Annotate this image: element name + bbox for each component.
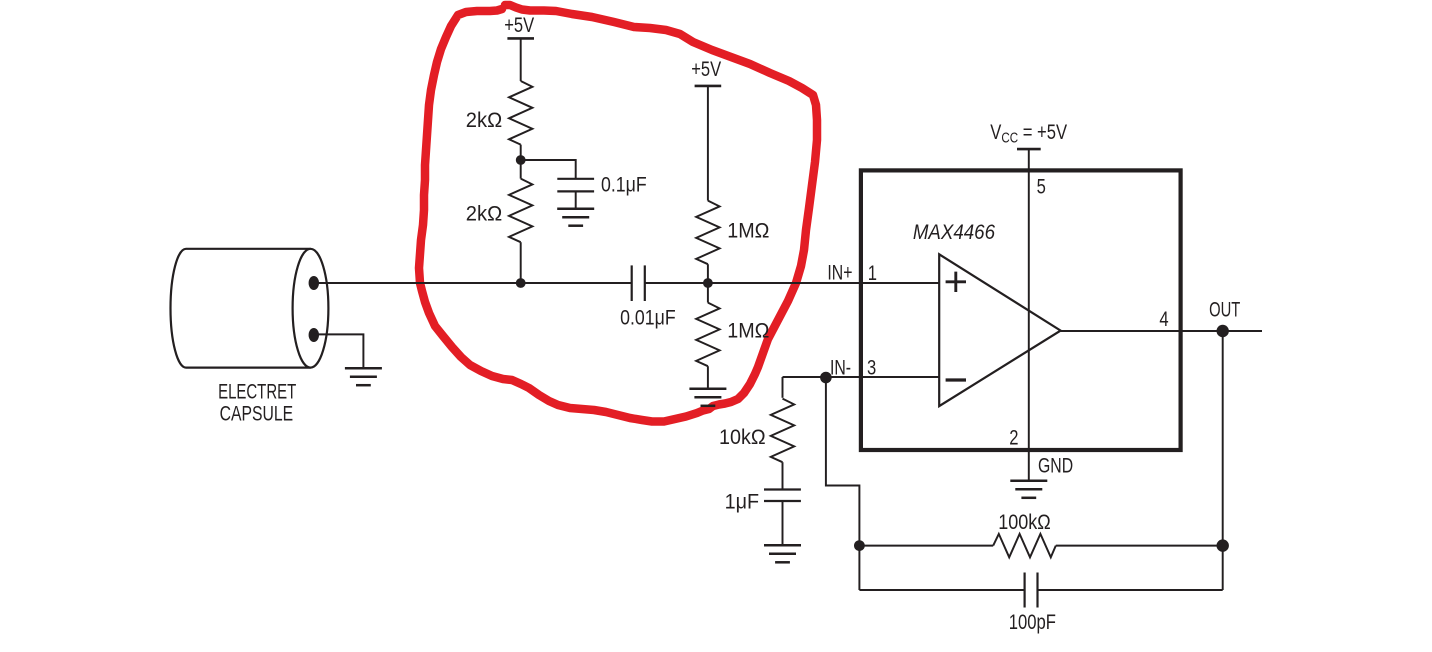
IN- label <box>830 355 851 379</box>
svg-text:GND: GND <box>1038 453 1073 477</box>
node on main wire <box>516 278 526 288</box>
pin 5 / pin 2 vertical rail <box>1028 149 1030 481</box>
label 2kOhm <box>466 202 502 225</box>
svg-text:100kΩ: 100kΩ <box>998 511 1050 535</box>
resistor 100k <box>993 534 1056 557</box>
pin number 2 <box>1009 426 1018 449</box>
label 10kOhm <box>719 427 766 450</box>
node feedback left <box>854 540 865 551</box>
node OUT <box>1217 325 1229 337</box>
plus input mark <box>946 272 966 292</box>
svg-text:OUT: OUT <box>1209 298 1240 321</box>
op-amp triangle <box>939 254 1060 406</box>
IN- wire <box>783 376 940 378</box>
svg-text:1MΩ: 1MΩ <box>727 220 769 243</box>
label 1MOhm <box>727 320 769 343</box>
label 0.01uF <box>620 307 676 330</box>
svg-text:100pF: 100pF <box>1009 610 1056 633</box>
node feedback right <box>1217 539 1229 551</box>
label 100pF <box>1009 610 1056 633</box>
GND label <box>1038 453 1073 477</box>
resistor 10k <box>771 399 794 463</box>
svg-text:VCC = +5V: VCC = +5V <box>990 120 1067 146</box>
ground 1uF <box>764 544 801 547</box>
pin number 1 <box>868 262 877 285</box>
IN+ label <box>827 260 852 284</box>
label 1uF <box>725 491 759 514</box>
svg-text:1μF: 1μF <box>725 491 759 514</box>
wire +5V to 1M upper <box>707 86 709 201</box>
label CAPSULE <box>220 401 293 425</box>
svg-text:0.01μF: 0.01μF <box>620 307 676 330</box>
svg-text:2kΩ: 2kΩ <box>466 202 502 225</box>
pin number 5 <box>1037 176 1046 199</box>
wire cap run left <box>859 589 1024 591</box>
wire +5V to R1 <box>520 38 522 81</box>
svg-text:1: 1 <box>868 262 877 285</box>
label MAX4466 <box>913 221 995 244</box>
resistor 1M lower <box>696 303 719 367</box>
svg-text:IN+: IN+ <box>827 260 852 284</box>
OUT label <box>1209 298 1240 321</box>
capacitor 1uF <box>764 488 801 490</box>
minus input mark <box>946 378 966 381</box>
wire cap run right <box>1038 589 1223 591</box>
svg-text:CAPSULE: CAPSULE <box>220 401 293 425</box>
resistor 1M upper <box>696 201 719 265</box>
wire 1uF to ground <box>782 501 784 545</box>
svg-text:1MΩ: 1MΩ <box>727 320 769 343</box>
label ELECTRET CAPSULE <box>218 380 296 403</box>
wire R1 to node <box>520 145 522 179</box>
label 0.1uF <box>601 174 647 197</box>
capacitor 100pF <box>1023 573 1025 608</box>
Vcc supply bar <box>1017 148 1041 151</box>
capsule terminal bottom <box>309 328 319 342</box>
label 2kOhm <box>466 109 502 132</box>
svg-text:10kΩ: 10kΩ <box>719 427 766 450</box>
svg-text:+5V: +5V <box>691 57 721 80</box>
wire node to 0.1uF <box>521 160 576 179</box>
feedback resistor wire left <box>859 545 993 547</box>
node bias divider <box>516 155 526 165</box>
svg-text:0.1μF: 0.1μF <box>601 174 647 197</box>
node IN- <box>820 372 832 384</box>
capsule terminal top <box>309 276 319 290</box>
svg-text:2kΩ: 2kΩ <box>466 109 502 132</box>
svg-text:5: 5 <box>1037 176 1046 199</box>
svg-text:2: 2 <box>1009 426 1018 449</box>
wire 1M to main node <box>707 264 709 302</box>
wire OUT down to feedback <box>1222 331 1224 590</box>
svg-text:+5V: +5V <box>504 13 534 36</box>
node IN+ bias <box>703 278 713 288</box>
ground 1M <box>689 388 726 391</box>
wire 10k to 1uF <box>782 462 784 489</box>
capacitor 0.1uF <box>557 178 594 180</box>
resistor 2k upper <box>509 81 532 145</box>
ground GND pin <box>1010 480 1047 483</box>
Vcc = +5V label <box>990 120 1067 146</box>
wire IN- down to 10k <box>782 377 784 398</box>
svg-text:IN-: IN- <box>830 355 851 379</box>
ground 0.1uF <box>557 207 594 210</box>
wire capsule bottom to ground <box>314 334 364 368</box>
svg-text:4: 4 <box>1159 308 1169 331</box>
svg-text:ELECTRET: ELECTRET <box>218 380 296 403</box>
ground under capsule <box>345 367 382 370</box>
label 100kOhm <box>998 511 1050 535</box>
red annotation loop <box>419 5 817 422</box>
wire R2 to main node <box>520 242 522 283</box>
op-amp package box U1 <box>861 170 1181 450</box>
main signal wire <box>314 282 632 284</box>
svg-text:MAX4466: MAX4466 <box>913 221 995 244</box>
feedback resistor wire right <box>1056 545 1223 547</box>
wire 1M lower to ground <box>707 366 709 389</box>
pin number 4 <box>1159 308 1169 331</box>
output wire pin 4 <box>1061 330 1262 332</box>
+5V supply 2 <box>691 57 721 80</box>
capacitor 0.01uF <box>631 265 633 301</box>
electret capsule microphone <box>171 249 311 368</box>
resistor 2k lower <box>509 179 532 243</box>
wire cap to op-amp IN+ <box>645 282 939 284</box>
label 1MOhm <box>727 220 769 243</box>
+5V supply 1 <box>504 13 534 36</box>
wire IN- to feedback node <box>826 377 860 590</box>
pin number 3 <box>867 357 876 380</box>
